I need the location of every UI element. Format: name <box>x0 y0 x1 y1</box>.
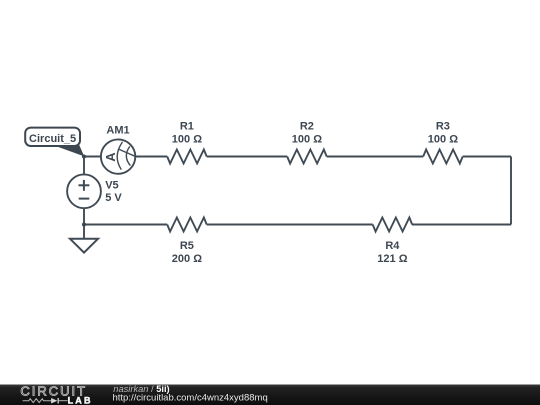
wire R5 to node B <box>84 224 167 226</box>
resistor R3 <box>423 150 463 164</box>
wire right vertical <box>510 157 512 225</box>
resistor R4 <box>373 218 413 232</box>
svg-text:Circuit_5: Circuit_5 <box>29 133 76 145</box>
wire node A to ammeter <box>84 156 101 158</box>
svg-text:R1: R1 <box>180 120 194 132</box>
ground <box>70 239 98 253</box>
svg-text:AM1: AM1 <box>106 124 129 136</box>
node A junction dot <box>82 154 86 158</box>
wire R3 to right corner <box>463 156 511 158</box>
resistor R1 <box>167 150 207 164</box>
voltage source V5 <box>67 174 101 208</box>
CircuitLab logo resistor zigzag <box>23 399 51 403</box>
svg-text:R5: R5 <box>180 240 194 252</box>
svg-text:200 Ω: 200 Ω <box>172 253 202 265</box>
wire node B to ground <box>83 225 85 239</box>
net label callout Circuit_5 <box>25 128 84 157</box>
resistor R5 <box>167 218 207 232</box>
svg-text:R3: R3 <box>436 120 450 132</box>
wire ammeter to R1 <box>135 156 167 158</box>
svg-text:100 Ω: 100 Ω <box>428 133 458 145</box>
wire R4 to R5 <box>207 224 373 226</box>
svg-text:100 Ω: 100 Ω <box>172 133 202 145</box>
wire R2 to R3 <box>327 156 424 158</box>
svg-text:R2: R2 <box>300 120 314 132</box>
ammeter AM1 <box>101 139 135 173</box>
svg-text:R4: R4 <box>385 240 400 252</box>
wire R1 to R2 <box>207 156 288 158</box>
svg-text:V5: V5 <box>105 180 118 192</box>
svg-text:5 V: 5 V <box>105 192 122 204</box>
svg-text:http://circuitlab.com/c4wnz4xy: http://circuitlab.com/c4wnz4xyd88mq <box>113 393 268 404</box>
svg-text:121 Ω: 121 Ω <box>377 253 407 265</box>
svg-text:LAB: LAB <box>68 395 93 405</box>
footer bar <box>0 385 540 405</box>
resistor R2 <box>287 150 327 164</box>
svg-text:A: A <box>103 152 118 162</box>
wire corner to R4 <box>412 224 511 226</box>
node B junction dot <box>82 222 86 226</box>
wire V5 bottom to node B <box>83 208 85 224</box>
wire node A to V5 top <box>83 157 85 175</box>
svg-text:100 Ω: 100 Ω <box>292 133 322 145</box>
CircuitLab logo diode <box>51 398 67 404</box>
